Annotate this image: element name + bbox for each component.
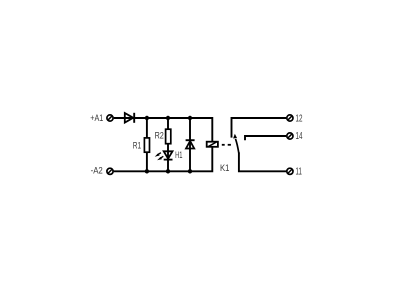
svg-text:R2: R2 (155, 130, 164, 141)
svg-text:-A2: -A2 (91, 164, 103, 175)
svg-text:12: 12 (296, 113, 303, 124)
svg-text:H1: H1 (175, 149, 182, 160)
svg-text:14: 14 (296, 131, 303, 142)
svg-text:K1: K1 (220, 162, 229, 173)
svg-text:11: 11 (296, 167, 302, 178)
svg-text:+A1: +A1 (90, 112, 103, 123)
svg-text:R1: R1 (133, 139, 141, 150)
